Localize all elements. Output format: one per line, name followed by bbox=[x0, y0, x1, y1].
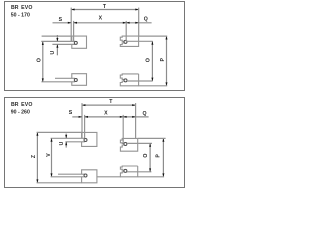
dimension U (top box) bbox=[56, 35, 58, 41]
svg-text:EVO: EVO bbox=[21, 5, 33, 11]
slot lines upper-left part (bottom) bbox=[51, 137, 85, 139]
extension part top to P (top box) bbox=[139, 35, 168, 37]
dimension O right (top box) bbox=[151, 41, 153, 81]
extension part bottom right to P (bottom) bbox=[138, 176, 164, 178]
slot-bottom extension to O right (lower) bbox=[127, 80, 153, 82]
dimension T (top box) bbox=[71, 9, 139, 11]
svg-text:BR: BR bbox=[11, 102, 19, 108]
slot lines upper-left part bbox=[41, 40, 75, 42]
long extension line V/P bottom left segment bbox=[51, 176, 84, 178]
dimension T (bottom box) bbox=[82, 104, 136, 106]
svg-text:P: P bbox=[156, 154, 162, 158]
svg-text:X: X bbox=[104, 110, 108, 116]
slot lines lower-left part bbox=[55, 77, 75, 79]
dimension O left (top box) bbox=[42, 42, 44, 82]
extension part top right to P (bottom) bbox=[138, 137, 166, 139]
dimension O right (bottom box) bbox=[149, 143, 151, 171]
dimension Z (bottom box) bbox=[36, 132, 38, 182]
part lower-left (top drawing) bbox=[72, 74, 87, 86]
part upper-left (top drawing) bbox=[72, 36, 87, 48]
svg-text:O: O bbox=[36, 58, 42, 62]
long extension line V/P bottom right segment bbox=[97, 176, 121, 178]
part upper-right (bottom drawing) bbox=[120, 138, 137, 143]
svg-text:Q: Q bbox=[144, 16, 148, 22]
dimension V (bottom box) bbox=[51, 138, 53, 177]
part lower-right (top drawing) bbox=[120, 74, 138, 80]
svg-text:T: T bbox=[109, 99, 113, 105]
svg-text:O: O bbox=[146, 58, 152, 62]
dimension S (top box) bbox=[53, 22, 72, 24]
frame top box bbox=[5, 2, 185, 91]
dimension Q (top box) bbox=[126, 22, 151, 24]
svg-text:S: S bbox=[59, 17, 63, 23]
svg-text:90 - 260: 90 - 260 bbox=[11, 109, 30, 115]
svg-text:X: X bbox=[99, 16, 103, 22]
svg-text:U: U bbox=[59, 141, 65, 145]
extension part-top left (top box) bbox=[42, 35, 72, 37]
part lower-right (bottom drawing) bbox=[120, 166, 137, 170]
extension part-top left to Z bbox=[37, 131, 82, 133]
dimension S (bottom box) bbox=[72, 116, 82, 118]
extension line left of T/S bbox=[70, 8, 72, 42]
part upper-left (bottom drawing) bbox=[82, 132, 97, 146]
svg-text:Q: Q bbox=[142, 111, 146, 117]
frame bottom box bbox=[5, 98, 185, 188]
svg-text:O: O bbox=[143, 154, 149, 158]
part lower-left (bottom drawing) bbox=[82, 170, 97, 183]
svg-text:P: P bbox=[160, 58, 166, 62]
dimension P right (top box) bbox=[166, 36, 168, 86]
svg-text:EVO: EVO bbox=[21, 102, 33, 108]
dimension X (top box) bbox=[74, 22, 127, 24]
dimension P right (bottom box) bbox=[162, 138, 164, 176]
slot-top extension to O right (upper) bbox=[127, 40, 153, 42]
svg-text:V: V bbox=[46, 153, 52, 157]
svg-text:S: S bbox=[69, 110, 73, 116]
svg-text:Z: Z bbox=[31, 154, 37, 158]
slot lines lower-left part (bottom) bbox=[58, 173, 85, 175]
svg-text:50 - 170: 50 - 170 bbox=[11, 13, 30, 19]
extension line right of T bbox=[138, 8, 140, 37]
dimension X (bottom box) bbox=[85, 116, 124, 118]
part upper-right (top drawing) bbox=[120, 36, 138, 41]
extension part-bottom to Z bbox=[37, 182, 82, 184]
svg-text:U: U bbox=[50, 50, 56, 54]
extension part bottom to P (top box) bbox=[139, 85, 168, 87]
svg-text:BR: BR bbox=[11, 5, 19, 11]
dimension Q (bottom box) bbox=[123, 116, 148, 118]
dimension U (bottom box) bbox=[65, 134, 67, 139]
